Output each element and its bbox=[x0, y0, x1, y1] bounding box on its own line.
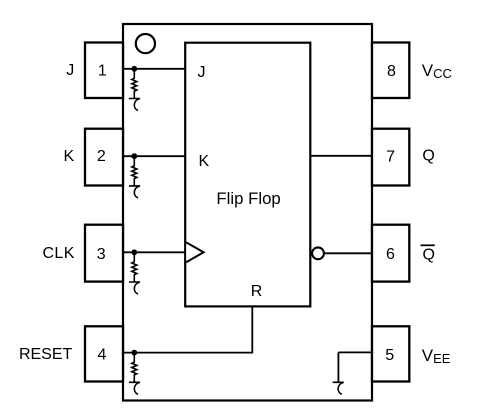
pin box 6 bbox=[372, 225, 409, 282]
wire Q-bar (bubble to pin 6) bbox=[324, 252, 372, 254]
substrate squiggle at pin 3 bbox=[129, 282, 140, 294]
junction dot at pin 2 bbox=[131, 153, 137, 159]
svg-text:CLK: CLK bbox=[42, 245, 74, 262]
wire J (pin 1 to flip flop) bbox=[123, 68, 185, 70]
svg-text:J: J bbox=[198, 64, 206, 81]
flip flop block bbox=[185, 43, 310, 307]
IC package outline U1 bbox=[123, 24, 372, 401]
junction dot at pin 4 bbox=[131, 350, 137, 356]
svg-text:Flip Flop: Flip Flop bbox=[216, 189, 280, 208]
pin box 8 bbox=[372, 43, 409, 99]
pull-down resistor at pin 2 bbox=[132, 156, 137, 186]
wire VEE horizontal segment (pin 5) bbox=[338, 351, 372, 353]
substrate squiggle at pin 5 (VEE) bbox=[333, 382, 344, 394]
svg-text:J: J bbox=[66, 62, 74, 79]
svg-text:5: 5 bbox=[385, 347, 394, 364]
junction dot at pin 3 bbox=[131, 249, 137, 255]
wire RESET horizontal segment (pin 4) bbox=[123, 352, 252, 354]
svg-text:RESET: RESET bbox=[19, 346, 73, 363]
svg-text:Q: Q bbox=[422, 148, 434, 165]
substrate squiggle at pin 1 bbox=[129, 99, 140, 111]
pull-down resistor at pin 3 bbox=[132, 252, 137, 282]
pin box 3 bbox=[85, 225, 123, 282]
substrate squiggle at pin 2 bbox=[129, 186, 140, 198]
pin box 1 bbox=[85, 43, 123, 99]
svg-text:8: 8 bbox=[387, 63, 396, 80]
svg-text:R: R bbox=[251, 283, 263, 300]
pin box 4 bbox=[85, 326, 123, 381]
svg-text:3: 3 bbox=[97, 246, 106, 263]
wire CLK (pin 3 to clock triangle) bbox=[123, 251, 185, 253]
pull-down resistor at pin 4 bbox=[132, 353, 137, 383]
svg-text:7: 7 bbox=[386, 148, 395, 165]
clock input triangle bbox=[186, 242, 203, 262]
pin-1 orientation mark (circle) bbox=[136, 34, 155, 53]
pin box 7 bbox=[372, 129, 409, 186]
wire VEE vertical segment bbox=[337, 352, 339, 382]
svg-text:Q: Q bbox=[423, 246, 435, 263]
svg-text:K: K bbox=[199, 153, 210, 170]
svg-text:1: 1 bbox=[98, 62, 107, 79]
inversion bubble on Q-bar output bbox=[312, 247, 324, 259]
pull-down resistor at pin 1 bbox=[132, 69, 137, 99]
pin box 5 bbox=[372, 326, 409, 381]
wire K (pin 2 to flip flop) bbox=[123, 155, 185, 157]
svg-text:K: K bbox=[64, 148, 75, 165]
svg-text:6: 6 bbox=[386, 246, 395, 263]
wire Q (flip flop to pin 7) bbox=[310, 155, 372, 157]
substrate squiggle at pin 4 bbox=[129, 382, 140, 394]
wire RESET vertical segment to R input bbox=[251, 306, 253, 353]
junction dot at pin 1 bbox=[131, 66, 137, 72]
pin box 2 bbox=[85, 129, 123, 186]
svg-text:2: 2 bbox=[97, 148, 106, 165]
overline of Q-bar bbox=[421, 244, 435, 246]
svg-text:4: 4 bbox=[97, 346, 106, 363]
